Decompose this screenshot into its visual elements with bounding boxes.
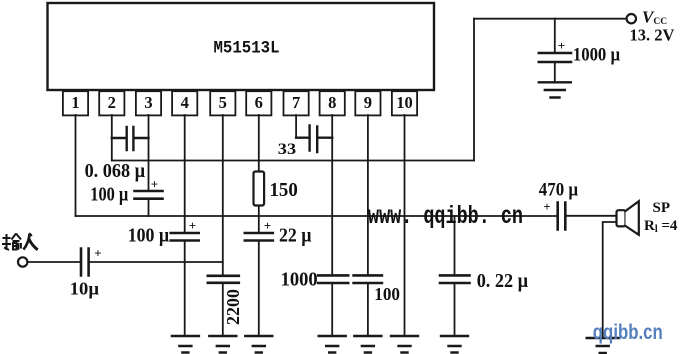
pin 8 box: [320, 91, 345, 115]
pin 1 box: [63, 91, 88, 115]
wire output rail pin1 to 470u: [76, 215, 557, 217]
wire resistor to cap: [258, 206, 260, 233]
svg-text:1: 1: [71, 93, 79, 112]
svg-text:+: +: [94, 246, 101, 261]
svg-text:7: 7: [292, 93, 300, 112]
ground for pin8: [319, 336, 346, 353]
svg-text:4: 4: [181, 93, 189, 112]
ground for pin6: [245, 336, 272, 353]
pin 3 box: [136, 91, 161, 115]
speaker SP horn: [626, 201, 639, 235]
svg-text:5: 5: [219, 93, 227, 112]
wire pin9 cap to ground: [367, 283, 369, 336]
wire 470u to speaker: [567, 215, 617, 217]
svg-text:22 µ: 22 µ: [279, 225, 312, 246]
svg-text:Rl =4: Rl =4: [644, 218, 678, 235]
wire pin4 down: [184, 115, 186, 233]
ground for pin9: [354, 336, 381, 353]
capacitor C9 1000u on Vcc: [539, 53, 571, 62]
pin 9 box: [355, 91, 380, 115]
wire speaker return: [603, 222, 617, 338]
node Vcc terminal circle: [627, 14, 636, 23]
capacitor C12 10u input coupling: [81, 249, 89, 276]
op-amp U1 M51513L IC body: [48, 3, 435, 90]
svg-text:100 µ: 100 µ: [90, 185, 128, 206]
svg-text:+: +: [189, 218, 196, 233]
pin 2 box: [99, 91, 124, 115]
wire ripple rail pin2 to riser: [112, 160, 474, 162]
wire 1000u cap from Vcc rail: [554, 19, 556, 53]
pin 4 box: [172, 91, 197, 115]
pin 10 box: [392, 91, 417, 115]
svg-text:33: 33: [278, 141, 296, 158]
svg-text:1000: 1000: [281, 269, 318, 290]
wire 10u cap to pin5 line: [90, 261, 223, 263]
ground for pin10: [391, 336, 418, 353]
wire pin8 down: [331, 115, 333, 275]
capacitor C8 100 on pin9: [354, 275, 382, 283]
ground for pin5: [209, 336, 236, 353]
ground for 1000u cap: [539, 82, 571, 97]
svg-text:3: 3: [144, 93, 152, 112]
wire pin9 down: [367, 115, 369, 275]
svg-text:SP: SP: [653, 200, 671, 216]
svg-text:10: 10: [396, 93, 413, 112]
speaker SP body: [617, 210, 626, 226]
wire 1000u cap to ground: [554, 63, 556, 82]
svg-text:0. 068 µ: 0. 068 µ: [85, 161, 146, 182]
wire pin7 down: [295, 115, 297, 138]
capacitor C2 100u on pin3: [135, 191, 163, 199]
pin 7 box: [284, 91, 309, 115]
svg-text:6: 6: [255, 93, 263, 112]
ground for pin4: [172, 336, 199, 353]
wire 0.22u branch from rail: [454, 216, 456, 275]
svg-text:8: 8: [328, 93, 336, 112]
svg-text:0. 22 µ: 0. 22 µ: [477, 271, 529, 292]
pin 6 box: [246, 91, 271, 115]
ground for 0.22u: [441, 336, 468, 353]
wire pin2 down to ripple rail: [111, 115, 113, 161]
capacitor C10 0.22u: [440, 275, 470, 283]
capacitor C3 100u on pin4: [171, 233, 199, 241]
wire pin4 cap to ground: [184, 241, 186, 336]
capacitor C11 470u output coupling: [558, 203, 566, 230]
svg-text:9: 9: [364, 93, 372, 112]
svg-text:+: +: [558, 38, 565, 53]
pin 5 box: [210, 91, 235, 115]
node input label (Chinese: ru): [23, 233, 37, 249]
svg-text:+: +: [151, 177, 158, 192]
input terminal circle: [18, 257, 27, 266]
svg-text:100: 100: [374, 284, 400, 304]
capacitor C1 0.068u between pin2 and pin3: [112, 127, 149, 150]
svg-text:+: +: [264, 218, 271, 233]
svg-text:13. 2V: 13. 2V: [630, 26, 675, 45]
node input terminal label (Chinese: shu), drawn as strokes: [2, 234, 21, 251]
wire pin5 cap to ground: [222, 283, 224, 336]
svg-text:1000 µ: 1000 µ: [573, 44, 620, 65]
wire Vcc riser: [473, 19, 475, 161]
svg-text:qqibb.cn: qqibb.cn: [593, 321, 663, 344]
svg-text:M51513L: M51513L: [214, 39, 280, 59]
capacitor C4 2200 on pin5: [208, 276, 239, 283]
wire pin10 down to ground: [404, 115, 406, 336]
wire pin3 cap to output rail: [148, 200, 150, 217]
svg-text:2: 2: [108, 93, 116, 112]
wire pin1 down to output rail: [75, 115, 77, 216]
svg-text:470 µ: 470 µ: [539, 180, 578, 201]
wire pin6 cap to ground: [258, 241, 260, 336]
svg-text:www. qqibb. cn: www. qqibb. cn: [368, 202, 523, 231]
svg-text:100 µ: 100 µ: [128, 225, 170, 246]
svg-text:150: 150: [270, 179, 298, 201]
capacitor C7 1000 on pin8: [318, 275, 348, 283]
resistor R1 150: [254, 172, 265, 206]
wire pin6 down to resistor: [258, 115, 260, 172]
wire pin5 down to input node: [222, 115, 224, 275]
wire input to 10u cap: [28, 261, 80, 263]
svg-text:2200: 2200: [223, 289, 243, 325]
ground for speaker: [587, 338, 619, 353]
capacitor C6 33 between pin7 and pin8: [296, 126, 332, 153]
wire pin3 down: [148, 115, 150, 190]
svg-text:+: +: [543, 199, 550, 214]
wire Vcc top rail: [474, 18, 627, 20]
capacitor C5 22u on pin6: [245, 233, 273, 241]
wire pin8 cap to ground: [331, 283, 333, 336]
svg-text:10µ: 10µ: [70, 279, 99, 299]
wire 0.22u cap to ground: [454, 283, 456, 336]
